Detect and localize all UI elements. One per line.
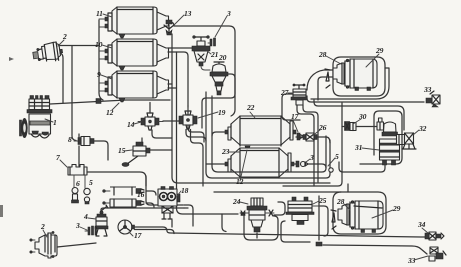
svg-text:19: 19 <box>218 108 226 117</box>
pneumatic cylinder pair (item 16) upper <box>103 187 144 195</box>
wire: frame loop around top spring chamber <box>333 57 385 96</box>
valve (item 24) <box>240 198 274 232</box>
pneumatic cylinder pair (item 16) lower <box>103 199 144 207</box>
svg-text:29: 29 <box>392 204 401 213</box>
wire: tank 10 left port stubs <box>99 51 105 59</box>
single protection valve (item 26) <box>303 133 317 141</box>
svg-text:9: 9 <box>97 70 101 79</box>
wire: chamber frame feed from protection circuit <box>318 77 333 100</box>
svg-text:10: 10 <box>95 40 103 49</box>
brake chamber (item 2, front left top) <box>32 41 64 63</box>
rear line junction fitting <box>316 242 322 246</box>
svg-text:28: 28 <box>318 50 327 59</box>
svg-text:1: 1 <box>53 118 57 127</box>
coupling head (item 33 bottom) <box>429 247 446 261</box>
svg-text:18: 18 <box>181 186 189 195</box>
svg-text:11: 11 <box>96 9 103 18</box>
fitting (item 3, lower left) <box>85 226 97 235</box>
wire: brake valve area riser <box>171 220 173 227</box>
svg-text:34: 34 <box>417 220 426 229</box>
pressure regulator (item 21) <box>192 36 210 66</box>
wire: tank 22 left port to trunk D <box>212 132 225 136</box>
air tank 10 <box>105 39 169 70</box>
svg-text:31: 31 <box>354 143 363 152</box>
wire: bundle drop to rear junction <box>318 196 320 240</box>
svg-text:28: 28 <box>336 197 345 206</box>
wire: frame around valve 25 <box>281 206 328 242</box>
wire: valve 19 bottom branch <box>186 130 206 187</box>
wire: valve 27 risers down <box>297 105 318 186</box>
small fitting (item 3 connection) <box>208 38 216 46</box>
wire: trunk vertical A <box>172 34 330 183</box>
wire: brake valve 4 control line <box>101 208 176 212</box>
wire: tank 11 line over the top to tank 22 <box>168 22 235 116</box>
svg-text:8: 8 <box>68 135 72 144</box>
svg-text:16: 16 <box>137 190 145 199</box>
check valve (item 8) <box>74 137 94 146</box>
svg-text:5: 5 <box>335 152 339 161</box>
svg-text:5: 5 <box>89 178 93 187</box>
condensation drain fitting (item 17, near tank 22) <box>297 133 304 140</box>
svg-text:23: 23 <box>221 147 230 156</box>
release valve (item 32) <box>397 133 417 149</box>
wire: valve 14 top feed from compressor line <box>149 103 151 114</box>
wire: supply trunk drop at rear <box>283 103 342 186</box>
brake valve (item 27) <box>291 84 307 105</box>
protection valve (item 14) <box>138 113 163 130</box>
wire: loop under valve 24 <box>244 216 278 240</box>
wire: vertical E feeding protection valves <box>188 106 204 142</box>
spring brake chamber (items 28/29 top) <box>325 59 377 91</box>
scan artifact small dot <box>9 57 14 61</box>
wire: hand valve 15 top tee <box>141 138 143 142</box>
wire: tank 11 left port stubs <box>99 19 105 27</box>
valve (item 25) <box>286 197 320 225</box>
air tank 9 <box>105 71 169 102</box>
wire: 16 cylinders feed lines from brake valve 18 <box>146 191 156 207</box>
wire: trunk vertical D <box>212 96 326 172</box>
svg-text:13: 13 <box>184 9 192 18</box>
wire: brake valve 18 ports <box>146 176 184 208</box>
wire: frame loop around air distributor 31 <box>360 111 402 164</box>
wire: line down to release valve 32 <box>314 100 404 130</box>
svg-text:32: 32 <box>418 124 427 133</box>
air tank 22 <box>225 116 296 150</box>
wire: tank 22 outlet through valve 26 <box>296 137 330 143</box>
tee fitting on compressor delivery line <box>96 99 101 104</box>
wire: outer return loop right side of chamber <box>311 68 389 99</box>
wire: distributor 31 to release valve 32 <box>339 136 402 172</box>
svg-text:3: 3 <box>75 221 80 230</box>
svg-text:33: 33 <box>407 256 416 265</box>
wire: tank 10 outlet pair to regulator 21 <box>168 48 194 106</box>
svg-text:21: 21 <box>210 50 219 59</box>
svg-text:4: 4 <box>83 212 88 221</box>
wire: tank 9 outlet stubs <box>168 84 177 88</box>
svg-text:2: 2 <box>62 32 67 41</box>
wire: hand valve 15 to trunk A <box>150 149 172 151</box>
valve (item 6) <box>72 188 79 204</box>
brake valve with pedal linkage (item 4) <box>95 205 108 236</box>
wire: long bottom line to rear coupling (item 34 line) <box>135 227 426 237</box>
wire: chamber 2 drop to compressor line <box>60 53 63 103</box>
wire: trunk vertical B <box>177 52 239 214</box>
wire: wheel 17 second line <box>135 230 175 234</box>
svg-text:22: 22 <box>246 103 255 112</box>
air tank 23 <box>225 148 294 178</box>
fitting (item 7) <box>68 165 87 176</box>
wire: tank feed manifold vertical <box>99 20 103 100</box>
fitting (item 3, near tank 23) <box>296 161 308 167</box>
wire: valve 27 left loop <box>282 94 300 120</box>
wire: tank 23 left port to trunk C <box>206 163 225 165</box>
wire: valve 30 to distributor 31 <box>342 126 377 128</box>
dual brake valve (item 18) <box>158 187 180 220</box>
wire: fitting 7 drops to valves 5 and 6 <box>74 175 85 188</box>
air distributor valve (item 31) <box>377 118 400 165</box>
wire: frame loop around bottom spring chamber <box>333 192 386 234</box>
wire: valve 27 outlet up to chamber frame <box>307 70 333 90</box>
scan artifact left edge <box>0 205 3 217</box>
svg-text:12: 12 <box>236 177 244 186</box>
double protection valve (item 19) <box>179 108 197 129</box>
wire: line from 24 right to frame of 25 <box>274 202 285 215</box>
wire: lines joining bottom trunk from valve 18 <box>184 205 193 226</box>
brake chamber (item 2, bottom left) <box>30 231 57 258</box>
wire: valve 14 bottom drop to manifold <box>152 130 172 138</box>
wire: compressor delivery line to trunk <box>50 100 170 104</box>
control wheel (item 17) <box>118 220 135 234</box>
svg-text:27: 27 <box>280 88 290 97</box>
wire: line to front coupling head <box>307 96 424 102</box>
svg-text:24: 24 <box>232 197 241 206</box>
wire: valve 8 to fitting 7 <box>79 134 108 166</box>
wire: valve 14 to valve 19 <box>163 120 179 122</box>
svg-text:2: 2 <box>40 222 45 231</box>
wire: drop from supply line to check valve 8 <box>72 46 76 141</box>
svg-text:33: 33 <box>423 85 432 94</box>
compressor U1 (item 1) <box>20 96 53 139</box>
wire: tank 23 outlet line <box>294 164 326 168</box>
coupling head (item 33 top right) <box>426 91 440 107</box>
wire: rear coupling supply line <box>323 245 427 254</box>
wire: frame drop left of valve 24 <box>222 214 226 232</box>
wire: regulator 21 down to valve 20 <box>201 66 210 70</box>
safety valve (item 13) on tank 11 outlet <box>164 20 174 35</box>
wire: brake chamber 2 supply line <box>58 45 99 47</box>
wire: trunk vertical C from valve 20 branch <box>206 92 330 178</box>
accelerating valve (item 30) <box>345 122 357 131</box>
wire: feed line into bottom chamber frame <box>214 184 348 192</box>
valve (item 5) <box>84 188 90 204</box>
wire: tank 9 left port stubs <box>99 83 105 91</box>
spring brake chamber (items 28/29 bottom) <box>331 201 383 233</box>
wire: line from valve 24 bottom <box>256 233 258 238</box>
wire: fitting 7 outlet main line <box>87 172 146 186</box>
svg-text:3: 3 <box>309 153 314 162</box>
wire: small fitting on line near 330,170 <box>329 168 333 172</box>
hand brake valve (item 15) <box>122 142 150 167</box>
svg-text:6: 6 <box>76 179 80 188</box>
rear coupling filter (item 34) <box>425 232 444 240</box>
wire: valve 20 loop to trunk <box>202 74 235 128</box>
wire: bottom chamber 2 to brake valve 4 <box>57 243 96 247</box>
air tank 11 <box>105 7 169 38</box>
svg-text:14: 14 <box>127 120 135 129</box>
tire inflation valve (item 20) <box>210 62 228 95</box>
svg-text:20: 20 <box>218 53 227 62</box>
